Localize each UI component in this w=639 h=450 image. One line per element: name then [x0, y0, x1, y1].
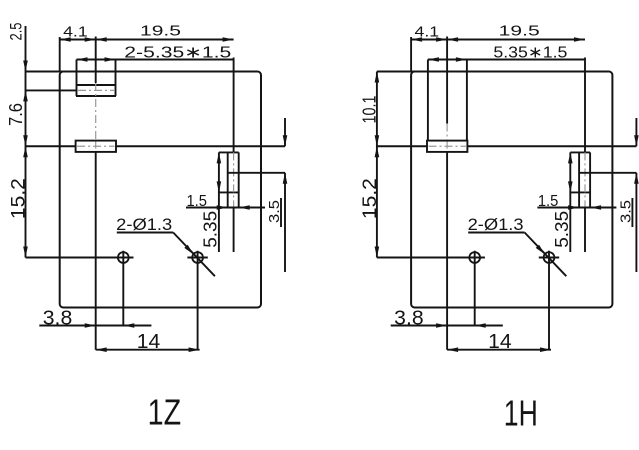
svg-text:5.35: 5.35	[552, 211, 572, 248]
svg-text:2.5: 2.5	[8, 23, 26, 41]
svg-text:2-Ø1.3: 2-Ø1.3	[116, 216, 172, 234]
svg-text:4.1: 4.1	[415, 25, 440, 41]
svg-text:1Z: 1Z	[148, 392, 182, 433]
svg-text:5.35∗1.5: 5.35∗1.5	[493, 45, 567, 62]
svg-text:3.5: 3.5	[266, 200, 283, 223]
svg-text:7.6: 7.6	[6, 103, 26, 126]
svg-text:14: 14	[488, 331, 512, 353]
svg-text:15.2: 15.2	[8, 178, 30, 219]
svg-text:3.8: 3.8	[394, 308, 424, 330]
svg-text:19.5: 19.5	[140, 23, 181, 40]
svg-text:3.5: 3.5	[617, 200, 634, 223]
svg-text:2-5.35∗1.5: 2-5.35∗1.5	[124, 45, 231, 62]
svg-text:14: 14	[137, 331, 161, 353]
svg-text:5.35: 5.35	[201, 211, 221, 248]
svg-text:4.1: 4.1	[63, 25, 88, 41]
svg-text:1.5: 1.5	[186, 193, 207, 210]
svg-text:10.1: 10.1	[359, 96, 380, 124]
svg-text:2-Ø1.3: 2-Ø1.3	[468, 216, 524, 234]
svg-text:1H: 1H	[504, 393, 538, 434]
svg-text:19.5: 19.5	[499, 23, 540, 40]
svg-text:3.8: 3.8	[43, 308, 73, 330]
svg-text:1.5: 1.5	[538, 193, 559, 210]
svg-text:15.2: 15.2	[359, 178, 381, 219]
